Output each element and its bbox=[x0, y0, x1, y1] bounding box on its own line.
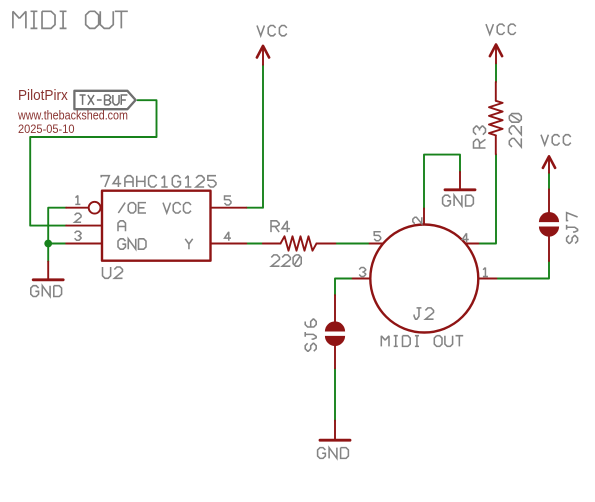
svg-text:PilotPirx: PilotPirx bbox=[18, 88, 68, 104]
svg-text:www.thebackshed.com: www.thebackshed.com bbox=[17, 108, 128, 123]
svg-text:2025-05-10: 2025-05-10 bbox=[18, 122, 75, 136]
